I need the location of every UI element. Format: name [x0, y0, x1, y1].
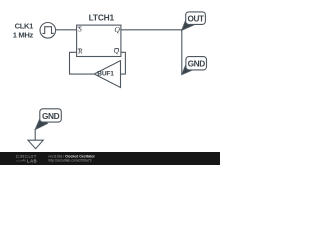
svg-text:LTCH1: LTCH1	[89, 13, 115, 23]
svg-text:GND: GND	[188, 58, 206, 68]
svg-text:BUF1: BUF1	[97, 71, 114, 78]
svg-text:1 MHz: 1 MHz	[13, 30, 34, 39]
svg-text:OUT: OUT	[188, 14, 204, 23]
svg-text:GND: GND	[42, 111, 60, 121]
svg-text:LAB: LAB	[27, 158, 37, 163]
svg-text:Q: Q	[114, 25, 120, 34]
svg-text:http://circuitlab.com/c/f39a73: http://circuitlab.com/c/f39a73	[48, 158, 91, 162]
svg-text:CLK1: CLK1	[15, 22, 35, 31]
svg-text:Q: Q	[114, 46, 120, 55]
